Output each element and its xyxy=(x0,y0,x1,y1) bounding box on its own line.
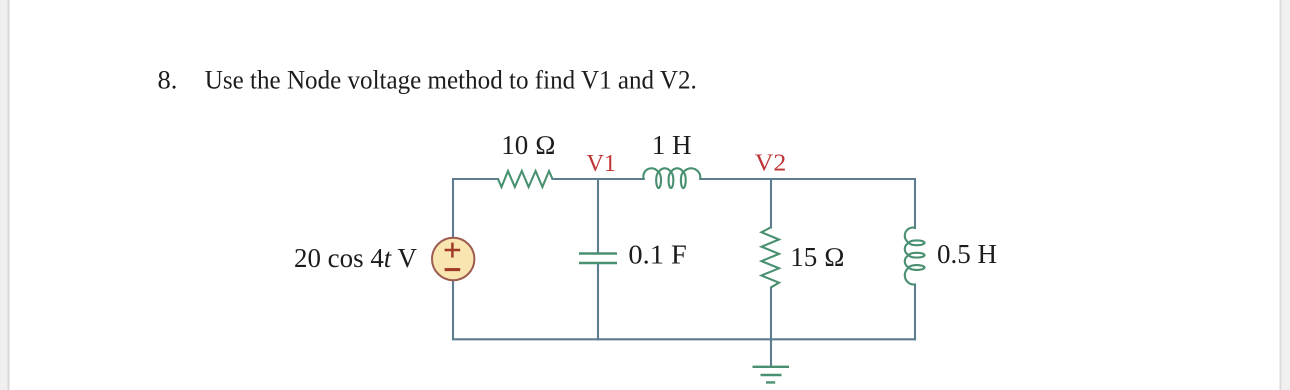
svg-text:0.5 H: 0.5 H xyxy=(937,239,997,269)
svg-text:15 Ω: 15 Ω xyxy=(790,242,845,272)
svg-text:20 cos 4t V: 20 cos 4t V xyxy=(294,243,417,273)
svg-text:10 Ω: 10 Ω xyxy=(501,130,556,160)
svg-text:1 H: 1 H xyxy=(652,130,692,160)
svg-text:Use the Node voltage method to: Use the Node voltage method to find V1 a… xyxy=(205,65,697,95)
svg-text:8.: 8. xyxy=(158,65,178,95)
svg-text:V1: V1 xyxy=(587,150,617,177)
svg-text:0.1 F: 0.1 F xyxy=(628,239,687,269)
svg-text:V2: V2 xyxy=(755,149,787,176)
